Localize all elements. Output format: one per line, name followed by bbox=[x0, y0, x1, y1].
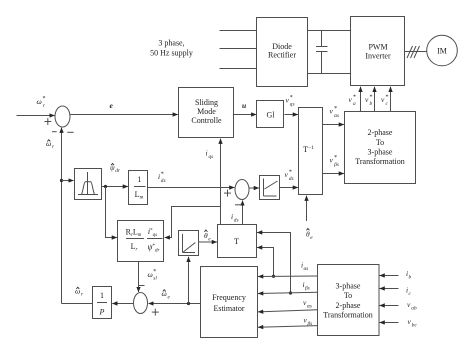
svg-text:Frequency: Frequency bbox=[212, 293, 246, 302]
label: psi dr hat bbox=[110, 163, 121, 174]
svg-text:*: * bbox=[386, 95, 389, 101]
svg-text:*: * bbox=[153, 269, 156, 275]
label: v beta s bbox=[304, 316, 313, 328]
svg-text:1: 1 bbox=[138, 175, 142, 184]
svg-text:P: P bbox=[99, 308, 105, 317]
svg-text:αs: αs bbox=[334, 113, 339, 119]
wire: i beta s branch to T bbox=[257, 233, 290, 294]
label: i alpha s bbox=[301, 261, 308, 273]
svg-text:αs: αs bbox=[307, 304, 312, 310]
wire: branch to flux filter bbox=[62, 180, 74, 182]
label: minus sign right below junction 1 bbox=[67, 131, 73, 133]
svg-text:v: v bbox=[285, 170, 289, 179]
label: omega r hat near 1/P bbox=[75, 287, 84, 298]
wire: 1/P output to feedback line bbox=[62, 303, 93, 305]
label: vqs ref bbox=[286, 95, 295, 108]
svg-text:e: e bbox=[110, 101, 114, 110]
label: vb ref bbox=[365, 95, 373, 107]
wire: dc bus top bbox=[308, 30, 351, 32]
label: plus sign at junction 3 bbox=[152, 309, 159, 316]
svg-text:50 Hz supply: 50 Hz supply bbox=[150, 49, 193, 58]
svg-text:RrLm: RrLm bbox=[126, 228, 142, 239]
wire: iqs from T up to sliding mode controller bbox=[220, 139, 222, 225]
label: omega e hat bbox=[162, 289, 171, 300]
block: 3-phase to 2-phase transformation bbox=[318, 265, 380, 336]
svg-text:b: b bbox=[370, 101, 373, 107]
wire: theta e hat up to T inverse bbox=[306, 196, 308, 221]
svg-text:IM: IM bbox=[437, 47, 447, 56]
svg-text:dr: dr bbox=[115, 168, 121, 174]
wire: dc bus bottom bbox=[308, 73, 351, 75]
svg-text:v: v bbox=[330, 107, 334, 116]
wire: ids ref to summing junction 2 bbox=[148, 187, 235, 189]
svg-text:Estimator: Estimator bbox=[213, 304, 244, 313]
label: ib bbox=[406, 269, 412, 281]
svg-text:3-phase: 3-phase bbox=[368, 148, 393, 157]
wire: supply line 2 bbox=[220, 48, 257, 50]
svg-text:i: i bbox=[231, 212, 233, 221]
svg-text:a: a bbox=[353, 101, 356, 107]
svg-text:*: * bbox=[334, 155, 337, 161]
label: vds ref bbox=[285, 169, 294, 182]
svg-text:αs: αs bbox=[304, 266, 309, 272]
svg-text:v: v bbox=[381, 95, 385, 104]
label: plus sign at summing junction 1 bbox=[44, 118, 51, 125]
label: vab bbox=[407, 300, 417, 312]
svg-text:Transformation: Transformation bbox=[355, 157, 404, 166]
block: Frequency Estimator bbox=[201, 267, 258, 338]
label: vbc bbox=[408, 317, 418, 329]
wire: branch up to integrator bbox=[188, 257, 190, 304]
svg-text:ab: ab bbox=[411, 306, 417, 312]
svg-text:c: c bbox=[409, 291, 412, 297]
svg-text:T: T bbox=[234, 237, 239, 246]
wire: vds ref to T inverse bbox=[280, 187, 298, 189]
label: ic bbox=[406, 286, 412, 298]
svg-text:ω: ω bbox=[37, 97, 42, 106]
motor: IM bbox=[427, 35, 458, 66]
svg-text:r: r bbox=[52, 144, 55, 150]
svg-text:v: v bbox=[365, 95, 369, 104]
wire: ids from T up to junction 2 bbox=[242, 201, 244, 225]
wire: ib input bbox=[380, 275, 399, 277]
svg-text:ds: ds bbox=[234, 218, 239, 224]
svg-text:sl: sl bbox=[153, 276, 157, 282]
label: theta e hat near T bbox=[204, 230, 211, 243]
svg-text:Controlle: Controlle bbox=[191, 116, 222, 125]
label: ids bbox=[231, 212, 239, 224]
wire: inverter to motor with slashes bbox=[405, 46, 427, 58]
svg-text:Sliding: Sliding bbox=[195, 98, 218, 107]
wire: vqs ref to T inverse bbox=[285, 114, 298, 116]
svg-text:u: u bbox=[242, 101, 246, 110]
node: junction dot on feedback line bbox=[60, 179, 63, 182]
wire: junction 2 to current controller bbox=[249, 187, 259, 189]
label: omega r hat near junction 1 bbox=[46, 139, 55, 150]
wire: error e to sliding mode controller bbox=[70, 114, 178, 116]
wire: omega e hat from frequency estimator bbox=[149, 303, 201, 305]
block: flux filter bbox=[75, 169, 102, 200]
block: current controller ramp bbox=[260, 176, 280, 200]
node: junction dot on i beta s line bbox=[289, 291, 292, 294]
label: omega sl ref bbox=[148, 269, 158, 282]
svg-text:*: * bbox=[334, 106, 337, 112]
svg-text:Lr: Lr bbox=[131, 242, 138, 253]
svg-text:bc: bc bbox=[412, 323, 418, 329]
label: 3 phase 50 Hz supply bbox=[150, 39, 193, 58]
block: 1 over P bbox=[93, 287, 112, 319]
wire: iqs branch to slip calculator bbox=[165, 207, 221, 238]
svg-text:i: i bbox=[206, 149, 208, 158]
block: integrator bbox=[179, 231, 199, 256]
svg-text:2-phase: 2-phase bbox=[368, 128, 393, 137]
wire: supply line 1 bbox=[220, 30, 257, 32]
block: T transformation bbox=[218, 225, 257, 258]
wire: theta e hat to T bbox=[199, 241, 217, 243]
label: minus sign below junction 2 bbox=[235, 204, 241, 206]
svg-text:*: * bbox=[289, 169, 292, 175]
svg-text:To: To bbox=[344, 291, 352, 300]
wire: vb ref up to inverter bbox=[374, 87, 376, 112]
node: summing junction 3 bbox=[134, 293, 148, 314]
wire: v beta s to frequency estimator bbox=[258, 326, 317, 328]
block: Diode Rectifier bbox=[257, 18, 308, 87]
svg-text:*: * bbox=[290, 95, 293, 101]
svg-text:Rectifier: Rectifier bbox=[268, 51, 296, 60]
wire: u to Gl bbox=[234, 114, 257, 116]
svg-text:qs: qs bbox=[290, 102, 295, 108]
svg-text:*: * bbox=[353, 95, 356, 101]
node: junction dot on i alpha s line bbox=[272, 275, 275, 278]
svg-text:T−1: T−1 bbox=[303, 145, 314, 154]
wire: vc ref up to inverter bbox=[390, 87, 392, 112]
svg-text:v: v bbox=[330, 156, 334, 165]
svg-text:r: r bbox=[81, 292, 84, 298]
label: minus sign left below junction 1 bbox=[52, 131, 57, 133]
wire: junction 3 to 1/P bbox=[112, 303, 133, 305]
label: v alpha s bbox=[303, 298, 312, 310]
block: slip speed calculator RrLm/Lr iqs/psidr bbox=[118, 221, 164, 262]
svg-text:c: c bbox=[386, 101, 389, 107]
wire: v alpha s to frequency estimator bbox=[258, 310, 317, 312]
block: Sliding Mode Controlle bbox=[179, 88, 234, 138]
svg-text:Gl: Gl bbox=[267, 111, 276, 120]
wire: i beta s to frequency estimator bbox=[258, 292, 317, 293]
wire: flux to 1/Lm bbox=[102, 186, 128, 188]
svg-text:3 phase,: 3 phase, bbox=[158, 39, 184, 48]
svg-text:*: * bbox=[161, 171, 164, 177]
label: omega r ref bbox=[37, 96, 46, 109]
label: v alpha s ref bbox=[330, 106, 339, 119]
wire: v beta s ref bbox=[323, 173, 344, 175]
wire: supply line 3 bbox=[220, 68, 257, 70]
wire: v alpha s ref bbox=[323, 124, 344, 126]
label: ids ref bbox=[158, 171, 166, 184]
svg-text:v: v bbox=[349, 95, 353, 104]
svg-text:ds: ds bbox=[289, 176, 294, 182]
svg-text:i*qs: i*qs bbox=[148, 227, 157, 238]
svg-text:2-phase: 2-phase bbox=[336, 301, 361, 310]
svg-text:βs: βs bbox=[307, 321, 313, 327]
svg-text:PWM: PWM bbox=[368, 43, 387, 52]
block: PWM Inverter bbox=[351, 17, 405, 86]
svg-text:βs: βs bbox=[304, 286, 310, 292]
svg-text:Lm: Lm bbox=[135, 190, 144, 201]
label: plus sign at junction 2 bbox=[224, 190, 231, 197]
node: summing junction 2 bbox=[235, 180, 249, 200]
svg-text:r: r bbox=[43, 103, 46, 109]
svg-text:*: * bbox=[43, 96, 46, 102]
svg-text:*: * bbox=[370, 95, 373, 101]
node: summing junction 1 bbox=[55, 106, 70, 127]
label: vc ref bbox=[381, 95, 389, 107]
wire: branch down to slip calculator bbox=[106, 187, 117, 238]
svg-text:To: To bbox=[376, 138, 384, 147]
svg-text:3-phase: 3-phase bbox=[336, 282, 361, 291]
wire: i alpha s to frequency estimator bbox=[258, 275, 317, 278]
label: i beta s bbox=[303, 280, 310, 292]
svg-text:Mode: Mode bbox=[197, 107, 216, 116]
node: junction dot after filter bbox=[104, 185, 107, 188]
svg-text:ω: ω bbox=[148, 270, 153, 279]
svg-text:i: i bbox=[158, 172, 160, 181]
label: iqs bbox=[206, 149, 214, 161]
svg-text:ds: ds bbox=[161, 178, 166, 184]
label: theta e hat near T inverse bbox=[306, 229, 313, 242]
block: Gl bbox=[257, 101, 284, 128]
wire: va ref up to inverter bbox=[360, 87, 362, 112]
wire: vab input bbox=[380, 305, 399, 307]
svg-text:1: 1 bbox=[100, 291, 104, 300]
wire: ic input bbox=[380, 288, 399, 290]
svg-text:b: b bbox=[409, 275, 412, 281]
label: va ref bbox=[349, 95, 357, 107]
svg-text:Transformation: Transformation bbox=[323, 311, 372, 320]
node: junction dot on omega e line bbox=[187, 302, 190, 305]
block: 1 over Lm bbox=[129, 171, 148, 205]
wire: speed feedback vertical bbox=[61, 128, 63, 304]
block: slip calculator output wire bbox=[138, 262, 140, 293]
wire: i alpha s branch to T bbox=[257, 248, 273, 277]
wire: vbc input bbox=[380, 322, 399, 324]
svg-text:ψ*dr: ψ*dr bbox=[148, 243, 160, 254]
label: v beta s ref bbox=[330, 155, 339, 168]
svg-text:e: e bbox=[310, 235, 313, 241]
svg-text:βs: βs bbox=[333, 162, 339, 168]
svg-text:e: e bbox=[168, 294, 171, 300]
block: 2-phase to 3-phase transformation bbox=[345, 112, 416, 184]
svg-text:ψ: ψ bbox=[110, 163, 115, 172]
block: T inverse bbox=[299, 108, 323, 195]
wire: speed reference input bbox=[17, 115, 55, 117]
capacitor: dc link bbox=[316, 31, 328, 74]
svg-text:qs: qs bbox=[209, 154, 214, 160]
svg-text:Inverter: Inverter bbox=[365, 52, 391, 61]
label: minus sign at junction 3 bbox=[139, 285, 145, 287]
